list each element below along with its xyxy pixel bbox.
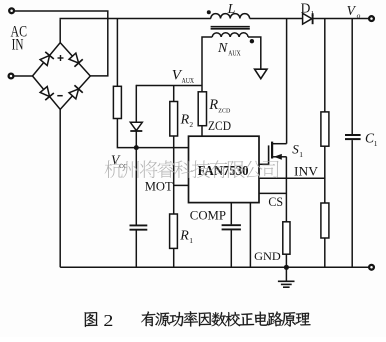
wire MOT pin xyxy=(174,184,189,186)
wire CS pin xyxy=(259,192,286,194)
terminal output bottom xyxy=(369,265,374,270)
label Naux xyxy=(217,41,241,57)
wire top rail left (bridge to inductor) xyxy=(60,18,211,20)
svg-text:2: 2 xyxy=(103,311,113,330)
svg-text:R: R xyxy=(180,112,190,127)
wire Vaux node to resistor Rzcd xyxy=(201,86,203,92)
capacitor C1 xyxy=(345,135,361,139)
wire D1 cathode to Vo terminal xyxy=(314,18,369,20)
wire startup resistor to Vcc rail xyxy=(117,119,188,148)
wire capacitor C1 to bottom rail xyxy=(351,140,353,267)
wire R1 to bottom rail xyxy=(173,248,175,267)
wire Naux right lead down to arrow xyxy=(248,37,261,69)
wire CS resistor to ground node xyxy=(285,254,287,267)
label Vcc xyxy=(111,153,127,170)
node ground junction dot xyxy=(284,265,289,270)
transformer core bars xyxy=(211,27,250,29)
resistor R2 xyxy=(170,102,178,137)
svg-text:MOT: MOT xyxy=(145,179,173,194)
svg-text:1: 1 xyxy=(189,236,193,245)
resistor Rzcd xyxy=(198,92,206,126)
wire Rzcd to ZCD pin xyxy=(201,126,203,137)
watermark text xyxy=(105,160,279,178)
wire bridge plus riser to top rail xyxy=(59,19,61,42)
resistor R1 xyxy=(170,214,178,248)
wire Naux left lead down to Vaux node xyxy=(202,37,212,86)
svg-text:IN: IN xyxy=(12,36,24,53)
svg-text:N: N xyxy=(217,41,228,56)
label R2 xyxy=(180,112,194,128)
svg-text:R: R xyxy=(208,97,218,113)
bridge rectifier diamond xyxy=(33,43,91,110)
bridge diode top-right (T to R) xyxy=(69,53,83,67)
diode D1 xyxy=(303,13,313,24)
svg-text:INV: INV xyxy=(294,165,318,179)
label plus xyxy=(58,55,64,61)
polarity dot Naux winding xyxy=(250,39,254,43)
label C1 xyxy=(365,131,378,148)
wire Vaux rail xyxy=(136,85,202,87)
wire divider middle (INV tap) xyxy=(324,146,326,203)
ground arrow under Naux (open triangle) xyxy=(255,69,267,79)
wire Vcc node down to Vcc capacitor xyxy=(135,148,137,225)
wire bottom rail xyxy=(60,266,368,268)
wire R2 to MOT node and down to R1 xyxy=(173,136,175,214)
wire COMP pin to capacitor xyxy=(230,203,232,225)
label Vo xyxy=(347,3,361,20)
wire inductor to diode D1 xyxy=(250,18,303,20)
transistor S1 power MOSFET xyxy=(259,142,287,165)
label Rzcd xyxy=(208,97,230,114)
wire Vaux to zener diode xyxy=(135,85,137,123)
wire GND pin to bottom rail xyxy=(249,203,251,268)
wire Vcc capacitor to bottom rail xyxy=(135,230,137,267)
wire AC top terminal to bridge right corner xyxy=(15,11,108,76)
svg-text:1: 1 xyxy=(299,150,303,159)
label R1 xyxy=(179,229,193,246)
capacitor Vcc filter xyxy=(130,225,148,229)
wire bridge bottom riser xyxy=(59,109,61,267)
wire top rail to divider upper resistor xyxy=(324,19,326,112)
label S1 xyxy=(292,142,303,159)
resistor startup (bridge to Vcc) xyxy=(113,86,121,118)
wire source down to CS node and resistor xyxy=(285,157,287,222)
svg-text:R: R xyxy=(179,229,189,244)
bridge diode top-left (L to T) xyxy=(40,52,54,66)
label AC IN xyxy=(11,24,28,54)
bridge diode bottom-left (L to B) xyxy=(40,87,54,101)
svg-text:AUX: AUX xyxy=(182,77,195,85)
svg-text:1: 1 xyxy=(311,9,315,18)
terminal AC input bottom xyxy=(9,74,14,79)
svg-text:1: 1 xyxy=(374,139,378,148)
terminal AC input top xyxy=(9,8,14,13)
zener diode Vaux to Vcc xyxy=(130,122,142,131)
svg-text:CS: CS xyxy=(268,195,283,209)
winding Naux xyxy=(212,33,248,37)
wire AC bottom terminal to bridge left corner xyxy=(14,75,32,77)
svg-text:AUX: AUX xyxy=(228,49,241,57)
wire top rail to capacitor C1 xyxy=(351,19,353,135)
svg-text:o: o xyxy=(357,11,361,20)
svg-text:CC: CC xyxy=(119,163,127,170)
resistor divider lower xyxy=(321,203,329,238)
wire divider lower to bottom rail xyxy=(324,238,326,267)
wire drain to top rail xyxy=(286,19,288,144)
wire INV pin to divider node xyxy=(259,177,325,179)
svg-text:ZCD: ZCD xyxy=(208,119,231,133)
label Vaux xyxy=(172,67,194,84)
op-amp U1 FAN7530 controller IC xyxy=(189,136,260,202)
node Vcc junction dot xyxy=(134,145,139,150)
wire Vaux to resistor R2 xyxy=(173,86,175,102)
terminal Vo xyxy=(369,16,374,21)
earth ground symbol xyxy=(278,267,295,287)
wire top rail to startup resistor xyxy=(116,19,118,87)
svg-text:ZCD: ZCD xyxy=(218,107,230,114)
capacitor COMP xyxy=(222,225,241,229)
svg-text:S: S xyxy=(292,142,299,157)
inductor L winding xyxy=(211,14,250,19)
svg-text:2: 2 xyxy=(189,120,193,129)
svg-text:GND: GND xyxy=(254,249,281,263)
label minus xyxy=(57,95,62,97)
svg-text:L: L xyxy=(227,2,236,17)
svg-text:COMP: COMP xyxy=(190,208,226,223)
resistor divider upper xyxy=(321,112,329,146)
svg-text:D: D xyxy=(301,1,311,16)
wire COMP capacitor to bottom rail xyxy=(230,230,232,267)
resistor CS sense xyxy=(283,222,290,254)
label D1 xyxy=(301,1,315,18)
caption figure title xyxy=(85,311,311,330)
polarity dot L winding xyxy=(207,10,211,14)
wire zener to Vcc node xyxy=(135,131,137,148)
bridge diode bottom-right (B to R) xyxy=(69,85,83,99)
